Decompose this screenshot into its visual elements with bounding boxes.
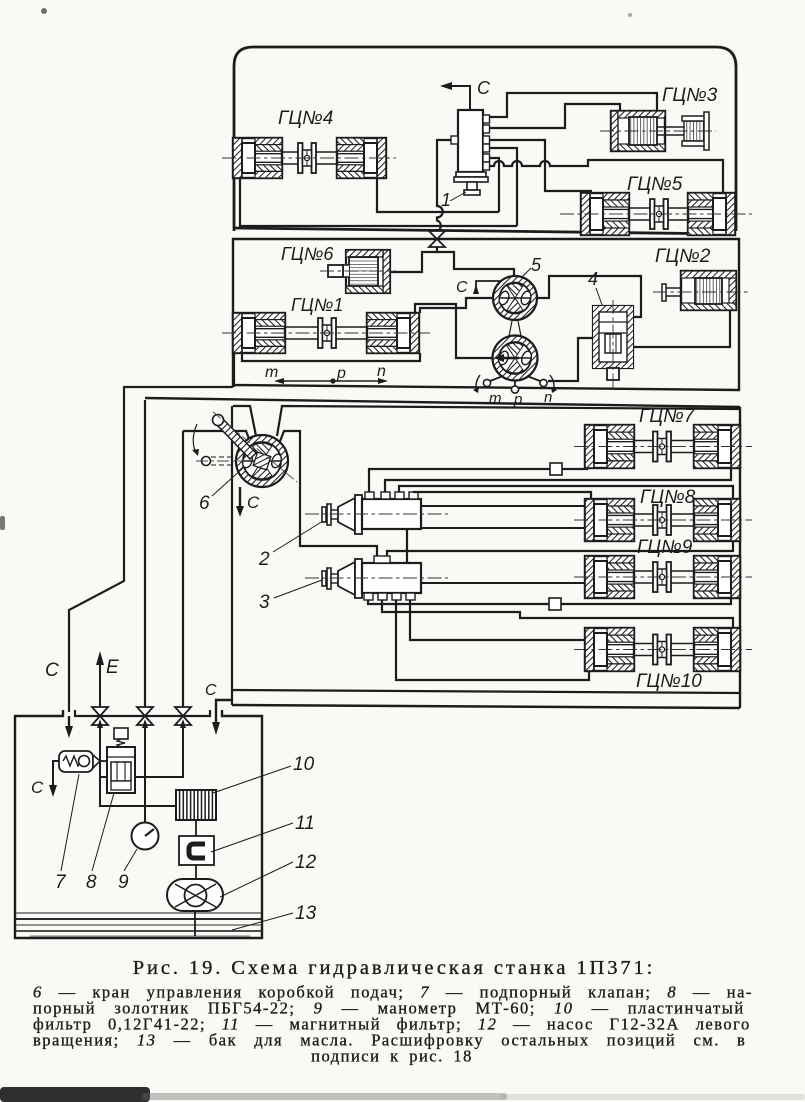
wire CV1 to GC6 branch — [390, 252, 437, 272]
GC3 detent spring — [684, 121, 704, 141]
cylinder GC5 right body — [688, 193, 735, 235]
wire U1 left port riser with hops — [437, 140, 451, 231]
scan smudge bottom left — [0, 1087, 150, 1102]
GC8 centerline — [574, 519, 752, 521]
svg-text:С: С — [31, 778, 44, 797]
svg-text:4: 4 — [588, 269, 598, 289]
svg-text:ГЦ№1: ГЦ№1 — [291, 295, 343, 315]
wire valve5 left port — [420, 298, 493, 313]
wire C2 drop (middle box feed) — [144, 400, 146, 707]
leader for 5 — [517, 268, 531, 282]
valve6 drain arrow C — [239, 487, 241, 508]
leader for 3 — [274, 580, 322, 598]
wire V2 down to manometer junction — [144, 725, 146, 822]
wire valve7 drain C — [53, 761, 59, 787]
valve5 port legs m p n — [514, 380, 516, 386]
duct comp3 to GC9 — [421, 582, 585, 584]
svg-text:10: 10 — [293, 754, 315, 775]
cylinder GC3 — [611, 111, 665, 151]
svg-text:С: С — [45, 660, 59, 681]
cylinder GC7 right body — [694, 425, 740, 468]
shutoff valve V3 — [175, 707, 191, 716]
scan speck top — [41, 8, 47, 14]
tank top edge segments — [75, 710, 210, 716]
wire C return from middle box — [216, 700, 232, 724]
pump 12 — [167, 879, 223, 911]
pressure valve 8 — [114, 728, 128, 739]
svg-text:7: 7 — [55, 872, 67, 893]
middle box outer bottom — [232, 705, 740, 708]
cylinder GC4 left body — [233, 138, 282, 178]
svg-text:С: С — [456, 279, 468, 296]
GC9 centerline — [574, 576, 752, 578]
wire GC4 left to U1 port6 loop — [240, 178, 517, 226]
GC5 centerline — [560, 213, 752, 215]
svg-text:9: 9 — [118, 872, 129, 893]
svg-text:p: p — [513, 391, 522, 408]
cylinder GC10 right body — [694, 628, 740, 671]
wire comp2 port2 to GC7 right — [385, 468, 731, 492]
cylinder GC2 — [681, 271, 736, 310]
wire C1 drop from box2 — [69, 387, 233, 712]
cylinder GC10 left body — [585, 628, 634, 671]
svg-text:ГЦ№4: ГЦ№4 — [278, 108, 333, 129]
svg-text:p: p — [336, 365, 346, 382]
GC8 coupling — [634, 513, 653, 515]
svg-text:С: С — [205, 682, 217, 699]
shutoff valve V2 — [137, 707, 153, 716]
GC3 centerline — [600, 130, 716, 132]
svg-text:С: С — [247, 493, 260, 512]
leader for 11 — [211, 823, 293, 852]
wire GC4 right to U1 port5 loop — [377, 178, 499, 212]
pipe to tank from plate A — [182, 431, 184, 707]
rotary valve 5 upper — [493, 276, 537, 320]
tank 13 walls — [15, 710, 262, 938]
wire GC8 bottom to comp3 top — [387, 541, 733, 556]
cylinder GC9 left body — [585, 556, 634, 598]
scan streak bottom — [142, 1093, 507, 1100]
stroke arrow m-p-n under GC1 — [330, 378, 335, 383]
outer plate contour and valve6 outlet pipe — [183, 431, 377, 556]
GC1 coupling — [285, 326, 318, 328]
shutoff valve V1 — [99, 708, 101, 725]
svg-text:ГЦ№6: ГЦ№6 — [281, 244, 334, 264]
connector on GC7 line — [550, 463, 562, 475]
svg-text:6: 6 — [199, 493, 210, 514]
svg-text:ГЦ№9: ГЦ№9 — [637, 537, 693, 558]
magnetic filter 11 — [179, 836, 214, 865]
wire valve5 to valve4 upper — [537, 276, 641, 317]
svg-text:2: 2 — [258, 549, 270, 570]
U1 right port stubs — [483, 115, 490, 123]
cylinder GC8 right body — [694, 499, 740, 541]
leader for 13 — [232, 913, 293, 930]
wire C1 arrow into tank — [68, 716, 70, 728]
wire valve4 to GC2 — [633, 310, 730, 347]
inner plate left edge — [231, 406, 233, 705]
inner plate top edge — [233, 406, 740, 436]
leader for 2 — [273, 521, 323, 552]
leader for 8 — [92, 793, 114, 871]
plate filter 10 — [176, 790, 216, 820]
GC1 centerline — [222, 332, 430, 334]
GC4 centerline — [222, 157, 396, 159]
cylinder GC1 left body — [233, 313, 285, 353]
leader for 10 — [213, 766, 291, 793]
GC2 centerline — [653, 291, 748, 293]
wire U1 port4 down loop — [489, 148, 517, 226]
duct comp2 to GC8 — [421, 505, 585, 507]
breather E arrow — [99, 663, 101, 708]
U1 drain arrow C — [452, 86, 470, 110]
svg-text:Е: Е — [106, 657, 119, 678]
GC9 coupling — [634, 570, 653, 572]
svg-text:1: 1 — [441, 190, 451, 210]
wire comp3 f2 to GC10 right — [382, 600, 733, 629]
leader for 12 — [220, 862, 293, 897]
cylinder GC5 left body — [581, 193, 629, 235]
leader for 6 — [212, 468, 243, 496]
rotary valve 5 lower — [493, 336, 538, 381]
GC10 centerline — [574, 649, 752, 651]
svg-text:ГЦ№5: ГЦ№5 — [627, 174, 683, 195]
connector on GC9 line — [549, 598, 561, 610]
svg-text:ГЦ№7: ГЦ№7 — [639, 406, 696, 427]
scan speck left margin — [0, 516, 5, 530]
wire GC1 to valve5 lower — [415, 304, 492, 358]
wire 2 to 3 — [406, 529, 408, 565]
middle box top edge — [145, 398, 740, 407]
GC7 centerline — [574, 446, 752, 448]
wire comp2 port3 to GC8 right — [399, 486, 733, 500]
svg-text:ГЦ№3: ГЦ№3 — [662, 85, 718, 106]
spool valve 3 — [322, 571, 326, 586]
scan speck top right — [628, 13, 632, 17]
svg-text:m: m — [265, 364, 278, 381]
svg-text:ГЦ№2: ГЦ№2 — [655, 246, 711, 267]
svg-text:12: 12 — [295, 852, 317, 873]
wire filter10 to filter11 — [195, 820, 197, 836]
wire CV1 to valve5 top — [437, 247, 514, 275]
middle box inner bottom — [232, 690, 740, 693]
cylinder GC7 left body — [585, 425, 634, 468]
spool valve 2 — [322, 507, 326, 522]
cylinder GC6 — [346, 250, 390, 293]
wire comp2 port4 to GC8 left — [413, 492, 591, 500]
wire comp3 f4 to GC10 left — [410, 600, 585, 640]
valve6 center square — [253, 452, 271, 470]
valve6 handle — [216, 418, 256, 459]
cylinder GC1 right body — [367, 313, 419, 353]
rotary valve 6 — [236, 435, 288, 487]
wire V3 down to valve8 output — [135, 725, 183, 777]
wire comp3 f3 to GC10 left bottom — [396, 600, 589, 680]
wire U1 port5 down — [489, 158, 499, 212]
valve6 side pin — [202, 457, 211, 466]
wire U1 port3 to GC5 left — [489, 140, 592, 191]
cylinder GC4 right body — [337, 138, 386, 178]
valve 4 body — [593, 306, 633, 368]
svg-text:5: 5 — [531, 255, 542, 275]
wire comp3 f1 to GC9 right — [368, 597, 731, 604]
wire valve5 lower to valve4 — [548, 338, 593, 381]
svg-text:С: С — [477, 78, 491, 98]
valve6 rotation arc — [193, 424, 197, 453]
valve5 lower internal arrow — [503, 357, 519, 360]
wire filter11 to pump — [195, 865, 197, 879]
pump suction line — [194, 911, 196, 936]
middle box right edge — [739, 407, 741, 708]
svg-text:3: 3 — [259, 592, 270, 613]
wire E line down to relief valve — [100, 725, 176, 806]
top box enclosure — [234, 47, 736, 231]
GC6 centerline — [320, 270, 396, 272]
svg-text:Рис. 19. Схема гидравлическая: Рис. 19. Схема гидравлическая станка 1П3… — [133, 957, 656, 979]
leader for 7 — [61, 774, 79, 871]
valve5 drain arrow C — [476, 281, 502, 294]
svg-text:13: 13 — [295, 903, 317, 924]
manometer 9 — [144, 806, 146, 823]
oil surface 13 — [16, 912, 261, 914]
wire comp2 port1 to GC7 left — [369, 468, 587, 492]
svg-text:8: 8 — [86, 872, 97, 893]
wire U1 port1 to GC3 top — [489, 93, 657, 117]
check valve CV1 — [429, 231, 445, 239]
svg-text:подписи к рис. 18: подписи к рис. 18 — [311, 1047, 473, 1066]
cylinder GC8 left body — [585, 499, 634, 541]
svg-text:n: n — [377, 363, 386, 380]
leader for 4 — [596, 288, 611, 330]
GC5 coupling — [629, 207, 650, 209]
wire GC1 left drop — [233, 353, 235, 387]
wire GC1 bottom loop — [242, 353, 420, 361]
svg-text:11: 11 — [295, 813, 315, 834]
valve5 link lines — [509, 321, 512, 336]
leader for 1 — [450, 192, 466, 201]
GC7 coupling — [634, 440, 653, 442]
GC10 coupling — [634, 643, 653, 645]
U1 left port stub — [451, 136, 458, 144]
leader for 9 — [124, 849, 137, 871]
wire E stub to valve8 — [100, 776, 107, 778]
wire U1 port6 to GC5 right (hops) — [489, 160, 723, 193]
cylinder GC9 right body — [694, 556, 740, 598]
svg-text:ГЦ№10: ГЦ№10 — [636, 671, 702, 692]
second box enclosure — [233, 239, 739, 390]
control valve U1 body — [458, 110, 483, 172]
GC4 coupling — [282, 151, 298, 153]
check valve 7 — [59, 751, 93, 772]
wire U1 port2 to GC3 — [489, 104, 620, 128]
